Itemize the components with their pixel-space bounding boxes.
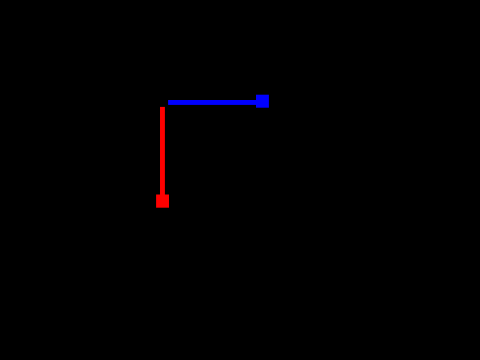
node blue square: [256, 95, 269, 108]
wire blue horizontal: [168, 100, 262, 105]
wire red vertical: [160, 107, 165, 201]
node red square: [156, 195, 169, 208]
